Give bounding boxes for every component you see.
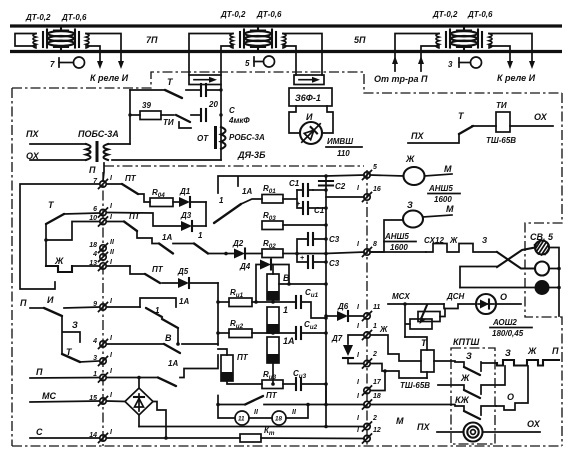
wire bridge top feed xyxy=(138,378,140,389)
relay coil ТИ xyxy=(496,112,510,132)
svg-text:1А: 1А xyxy=(242,187,252,196)
svg-text:4: 4 xyxy=(92,251,97,258)
svg-text:ПХ: ПХ xyxy=(417,422,430,432)
svg-text:20: 20 xyxy=(208,100,218,109)
svg-text:АНШ5: АНШ5 xyxy=(384,232,409,241)
signal lamp red (filled) xyxy=(535,280,550,295)
svg-text:6: 6 xyxy=(93,206,97,213)
wire terminal 9 to contact 1 block xyxy=(107,306,140,308)
terminal 9 xyxy=(93,298,113,312)
svg-text:С: С xyxy=(36,427,43,437)
wire З6Ф-1 to meter bracket xyxy=(289,106,333,133)
svg-text:И: И xyxy=(306,112,313,122)
terminal 15 xyxy=(89,392,113,406)
impedance bond A body xyxy=(47,26,75,52)
svg-text:18: 18 xyxy=(275,416,283,423)
svg-text:8: 8 xyxy=(373,241,377,248)
arrowhead down x510 xyxy=(507,61,513,69)
svg-text:Д4: Д4 xyxy=(239,262,251,271)
capacitor +C3 electrolytic xyxy=(297,254,326,263)
svg-text:2: 2 xyxy=(372,415,377,422)
svg-text:18: 18 xyxy=(89,242,97,249)
svg-text:1600: 1600 xyxy=(390,243,408,252)
svg-text:ПОБС-3А: ПОБС-3А xyxy=(78,129,119,139)
variable resistor МСХ xyxy=(405,304,410,337)
svg-text:1600: 1600 xyxy=(434,195,452,204)
terminal 18 xyxy=(89,239,115,253)
capacitor +C1 electrolytic xyxy=(297,190,326,208)
bond A left winding ДТ-0,2 xyxy=(33,34,36,48)
resistor R01 xyxy=(262,195,283,204)
svg-text:Ж: Ж xyxy=(405,154,415,164)
filter З6Ф-1 xyxy=(289,88,332,106)
svg-text:ПТ: ПТ xyxy=(152,265,164,274)
wire terminal 17 riser xyxy=(371,371,385,391)
svg-text:П: П xyxy=(36,367,43,377)
svg-text:+: + xyxy=(296,201,300,208)
terminal 8 xyxy=(357,241,377,257)
dash-dot border left xyxy=(11,88,13,446)
capacitor C1 xyxy=(297,189,313,191)
svg-text:12: 12 xyxy=(373,427,381,434)
impedance bond B body xyxy=(244,26,272,52)
svg-text:ДТ-0,2: ДТ-0,2 xyxy=(220,10,246,19)
svg-text:16: 16 xyxy=(373,186,381,193)
svg-text:Ж: Ж xyxy=(527,346,537,356)
svg-text:От тр-ра П: От тр-ра П xyxy=(374,74,428,84)
contact Т (ДЯ) xyxy=(130,89,165,91)
wire coil Т right to КПТШ xyxy=(434,360,455,362)
resistor Rи3 xyxy=(227,381,262,384)
terminal 16 xyxy=(357,185,381,202)
capacitor 20 xyxy=(200,109,202,121)
wire row terminal 18 II long xyxy=(218,396,364,405)
svg-text:ОТ: ОТ xyxy=(197,134,209,143)
contact ПТ (row 10) xyxy=(107,221,124,223)
contact ПТ (row 13) xyxy=(107,265,130,267)
svg-text:МС: МС xyxy=(42,391,56,401)
svg-text:ПХ: ПХ xyxy=(26,129,39,139)
resistor R04 xyxy=(150,198,173,207)
terminal 18 (col II) xyxy=(357,393,381,409)
arrowhead up x421 xyxy=(418,56,424,64)
main vertical bus x218 top block xyxy=(218,176,326,193)
wire М row xyxy=(139,426,364,428)
svg-text:М: М xyxy=(446,204,454,214)
svg-text:110: 110 xyxy=(337,149,350,158)
wire terminal5 to bus xyxy=(326,175,364,176)
terminal 5 xyxy=(363,164,378,180)
contact ПТ (row 7) xyxy=(107,183,122,185)
svg-text:1А: 1А xyxy=(283,336,295,346)
svg-text:З: З xyxy=(505,348,511,358)
wire lamp to ОХ xyxy=(483,431,540,433)
svg-text:Д3: Д3 xyxy=(180,211,192,220)
svg-text:ДТ-0,6: ДТ-0,6 xyxy=(61,13,87,22)
indicator ДСН АОШ2 xyxy=(476,294,496,314)
svg-text:С1: С1 xyxy=(289,179,300,188)
wire Д1/Д3 junction vertical xyxy=(205,202,207,226)
terminal 2 М xyxy=(357,415,377,431)
svg-text:180/0,45: 180/0,45 xyxy=(492,329,524,338)
capacitor Си2 xyxy=(295,327,297,339)
wire bond A left loop xyxy=(15,34,36,47)
wire bond B right winding to protector box xyxy=(283,34,322,76)
resistor Rи2 xyxy=(218,332,229,334)
svg-text:ДТ-0,6: ДТ-0,6 xyxy=(467,10,493,19)
svg-text:ПТ: ПТ xyxy=(125,174,137,183)
diode Д3 xyxy=(181,221,192,231)
signal lamp white (open) xyxy=(535,262,549,276)
svg-text:1: 1 xyxy=(283,305,288,315)
svg-text:ТИ: ТИ xyxy=(163,118,174,127)
wire coil В bottom xyxy=(272,300,274,302)
wire bus x221 (ДЯ feed) xyxy=(220,85,222,161)
capacitor C3 xyxy=(297,239,326,254)
wire МСХ row xyxy=(388,303,444,305)
diode Д2 xyxy=(234,249,245,259)
terminal 10 xyxy=(89,214,113,226)
svg-text:КЖ: КЖ xyxy=(455,395,470,405)
resistor Кт xyxy=(240,434,261,442)
svg-text:П: П xyxy=(552,346,559,356)
wire bond C to relay И arrows xyxy=(489,34,532,65)
svg-text:1: 1 xyxy=(373,323,377,330)
svg-text:С2: С2 xyxy=(335,182,346,191)
wire terminal6 row to Д3 xyxy=(107,213,181,227)
svg-text:РОБС-3А: РОБС-3А xyxy=(229,133,265,142)
wires counters row xyxy=(218,405,308,419)
svg-text:ПХ: ПХ xyxy=(411,131,424,141)
terminal 1 (col II) xyxy=(357,323,377,340)
resistor R03 xyxy=(262,221,283,230)
arrowhead down x121 xyxy=(118,61,124,69)
svg-text:5: 5 xyxy=(245,59,250,68)
svg-text:ПТ: ПТ xyxy=(237,353,249,362)
wire lamp red feed xyxy=(460,287,535,289)
bond B right winding xyxy=(283,34,286,48)
wire МС row xyxy=(30,401,99,402)
terminal 4 lower xyxy=(92,335,113,349)
svg-text:11: 11 xyxy=(238,416,245,423)
relay coil 1 xyxy=(267,307,279,333)
arrester box 1 xyxy=(189,75,221,85)
contact block 1 / 1А xyxy=(140,298,176,307)
dash-dot terminal column II xyxy=(366,170,368,446)
wire staircase from terminal 2 xyxy=(371,364,427,379)
left middle bus x218 xyxy=(217,283,219,345)
wire loop to terminal 10 xyxy=(46,222,99,241)
svg-text:ДСН: ДСН xyxy=(446,292,465,301)
svg-text:1: 1 xyxy=(198,231,203,240)
svg-text:1А: 1А xyxy=(179,297,189,306)
svg-text:5П: 5П xyxy=(354,35,366,45)
bond C right winding xyxy=(489,34,492,48)
wire bus x130 xyxy=(129,90,131,144)
svg-text:ДТ-0,2: ДТ-0,2 xyxy=(432,10,458,19)
svg-text:1А: 1А xyxy=(162,233,172,242)
wire terminal16 to bus xyxy=(326,196,364,198)
bond B left winding xyxy=(230,34,233,48)
svg-text:И: И xyxy=(47,295,54,305)
capacitor (top row) xyxy=(200,84,202,96)
wire terminal7 left loop xyxy=(20,184,99,289)
svg-text:ИМВШ: ИМВШ xyxy=(327,137,353,146)
svg-text:7: 7 xyxy=(50,60,55,69)
relay coil ПТ xyxy=(221,355,233,381)
bond C left winding xyxy=(436,34,439,48)
svg-text:АНШ5: АНШ5 xyxy=(428,184,453,193)
resistor Rи1 xyxy=(218,301,229,303)
wire bus bottom xyxy=(325,384,327,427)
svg-text:Д1: Д1 xyxy=(179,187,191,196)
cable terminator lamp xyxy=(464,423,483,442)
svg-text:Ж: Ж xyxy=(460,373,470,383)
lamp counter 18 xyxy=(272,411,286,425)
wire Т pivot down xyxy=(45,224,47,266)
dash-dot box КПТШ xyxy=(451,348,495,444)
wire crossing X to signal xyxy=(497,252,535,269)
diode Д1 xyxy=(179,197,190,207)
resistor 39 xyxy=(130,114,140,116)
svg-text:ТШ-65В: ТШ-65В xyxy=(400,381,430,390)
impedance bond C body xyxy=(450,26,478,52)
svg-text:В: В xyxy=(283,273,290,283)
capacitor Си3 xyxy=(295,378,297,390)
wire В coil row to bus xyxy=(279,283,326,285)
wire terminal 4 row В xyxy=(107,343,164,345)
svg-text:3: 3 xyxy=(448,60,453,69)
resistor R02 xyxy=(262,249,283,258)
svg-text:+: + xyxy=(300,255,304,262)
main vertical bus x326 xyxy=(325,176,327,405)
svg-text:З: З xyxy=(482,236,487,245)
relay coil 1А xyxy=(267,337,279,363)
terminal 4 upper xyxy=(92,249,115,262)
svg-text:ОХ: ОХ xyxy=(534,112,548,122)
lamp counter 11 xyxy=(235,411,249,425)
svg-text:В: В xyxy=(165,333,172,343)
svg-text:С: С xyxy=(229,106,235,115)
contact 1 (top block) xyxy=(214,204,241,223)
svg-text:С3: С3 xyxy=(329,259,340,268)
svg-text:К реле И: К реле И xyxy=(90,73,129,83)
arrowhead up x395 xyxy=(392,56,398,64)
arrowhead down x532 xyxy=(529,61,535,69)
rectifier bridge xyxy=(125,388,153,415)
terminal 13 xyxy=(89,259,113,271)
terminal 12 xyxy=(357,427,381,443)
svg-text:Ж: Ж xyxy=(54,256,64,266)
svg-text:ТИ: ТИ xyxy=(496,101,507,110)
wire bond A to relay И arrows xyxy=(86,34,121,65)
svg-text:ПТ: ПТ xyxy=(266,391,278,400)
relay Ж АНШ5-1600 xyxy=(370,175,403,176)
svg-text:Д6: Д6 xyxy=(337,302,349,311)
svg-text:39: 39 xyxy=(142,101,151,110)
bond A right winding ДТ-0,6 xyxy=(86,34,89,48)
signal lamp yellow (hatched) xyxy=(535,241,549,255)
meter ИМВШ (И) xyxy=(300,122,322,144)
wire ТИ to ОХ xyxy=(510,125,553,127)
svg-text:ДЯ-3Б: ДЯ-3Б xyxy=(237,150,266,160)
svg-text:4: 4 xyxy=(92,338,97,345)
contact ПТ (bottom) xyxy=(245,396,263,405)
wire bridge bottom to М row xyxy=(138,415,140,427)
svg-text:С1: С1 xyxy=(314,206,325,215)
svg-text:З6Ф-1: З6Ф-1 xyxy=(295,93,321,103)
wire П to terminal 7 xyxy=(103,163,104,181)
wire С row xyxy=(30,437,99,439)
rail line bottom xyxy=(10,50,562,53)
terminal 6 xyxy=(93,203,113,217)
svg-text:З: З xyxy=(466,351,472,361)
wire П row xyxy=(30,377,99,380)
arrowhead down x100 xyxy=(97,61,103,69)
diode Д5 xyxy=(178,278,189,288)
dash-dot border right with signal jog xyxy=(525,93,562,446)
dash-dot border top xyxy=(12,72,562,93)
svg-text:Ж: Ж xyxy=(379,325,388,334)
svg-text:О: О xyxy=(500,292,507,302)
svg-text:ДТ-0,2: ДТ-0,2 xyxy=(25,13,51,22)
svg-text:З: З xyxy=(407,200,413,210)
terminal 11 xyxy=(357,304,380,321)
svg-text:18: 18 xyxy=(373,393,381,400)
svg-text:ОХ: ОХ xyxy=(527,419,541,429)
wire ПХ right xyxy=(408,134,459,143)
wire ПХ into ПОБС xyxy=(30,143,86,145)
wire ОХ into ПОБС xyxy=(30,159,86,161)
arrester box 2 xyxy=(294,75,324,85)
svg-text:ДТ-0,6: ДТ-0,6 xyxy=(256,10,282,19)
terminal 3 xyxy=(93,352,113,366)
wire ПХ to lamp xyxy=(437,431,463,433)
svg-text:11: 11 xyxy=(373,304,380,311)
dash-dot inner divider xyxy=(104,165,364,167)
svg-text:МСХ: МСХ xyxy=(392,292,410,301)
contact Т (right) xyxy=(459,126,473,134)
dash-dot terminal column I xyxy=(102,172,104,446)
svg-text:С3: С3 xyxy=(329,235,340,244)
terminal 7 xyxy=(93,175,113,189)
wire bond B left winding to protector box xyxy=(189,34,233,76)
svg-text:7П: 7П xyxy=(146,35,158,45)
svg-text:17: 17 xyxy=(373,379,382,386)
capacitor Си1 xyxy=(295,296,297,308)
svg-text:1А: 1А xyxy=(168,359,178,368)
svg-text:ТШ-65В: ТШ-65В xyxy=(486,136,516,145)
svg-text:Д5: Д5 xyxy=(177,267,189,276)
svg-text:М: М xyxy=(444,164,452,174)
svg-text:З: З xyxy=(72,320,78,330)
wire РОБС bottom to ПОБС xyxy=(112,159,221,161)
capacitor C2 xyxy=(319,180,333,182)
svg-text:5: 5 xyxy=(373,164,377,171)
wire lamp returns xyxy=(549,248,559,317)
wire feed from transformer П up-arrows xyxy=(395,34,439,72)
svg-text:Д7: Д7 xyxy=(331,334,343,343)
svg-text:1: 1 xyxy=(219,196,224,205)
svg-text:К реле И: К реле И xyxy=(497,73,536,83)
rail line top xyxy=(10,24,562,27)
wire ДСН row xyxy=(444,304,476,309)
svg-text:Ж: Ж xyxy=(449,236,458,245)
wire terminal8 to bus xyxy=(326,252,364,254)
svg-text:М: М xyxy=(396,416,404,426)
svg-text:КПТШ: КПТШ xyxy=(453,337,480,347)
relay coil В xyxy=(267,274,279,300)
svg-text:4мкФ: 4мкФ xyxy=(228,116,250,125)
dash-dot border bottom xyxy=(12,445,562,447)
svg-text:П: П xyxy=(20,298,27,308)
svg-text:2: 2 xyxy=(372,351,377,358)
terminal 2 (col II) xyxy=(357,351,377,368)
svg-text:П: П xyxy=(89,165,96,175)
svg-text:АОШ2: АОШ2 xyxy=(492,318,517,327)
svg-text:ПТ: ПТ xyxy=(129,212,141,221)
svg-text:О: О xyxy=(507,392,514,402)
terminal 1 xyxy=(93,368,113,382)
wire bridge right to С row xyxy=(153,402,166,439)
terminal 17 xyxy=(357,379,382,395)
svg-text:Д2: Д2 xyxy=(232,239,244,248)
relay З АНШ5-1600 xyxy=(403,211,423,228)
terminal 14 xyxy=(89,429,113,443)
